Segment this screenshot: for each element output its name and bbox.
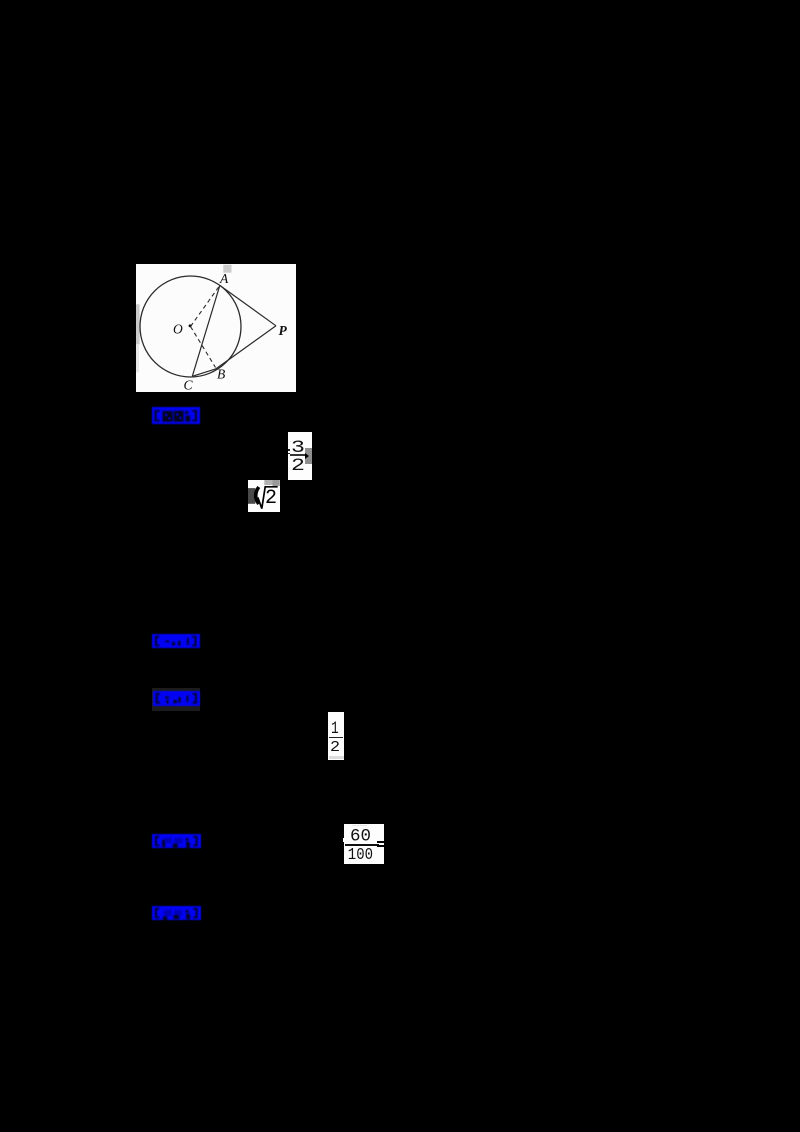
geometry figure image (white box with circle O, tangents PA, secant PC) — [136, 264, 296, 393]
gray strips top — [264, 480, 272, 485]
light gray strip bottom — [329, 756, 344, 759]
radical sign of sqrt(2) — [255, 487, 277, 509]
svg-text:C: C — [184, 377, 194, 392]
numerator 3 — [291, 439, 305, 456]
center dot O — [189, 324, 192, 327]
numerator 1 — [331, 720, 339, 738]
secant PC — [192, 325, 276, 376]
dark block left — [248, 488, 255, 504]
formula image 1/2 — [328, 712, 344, 761]
black cursor arrow — [305, 453, 309, 459]
fraction bar — [329, 737, 343, 739]
dashed radius OA — [191, 285, 220, 326]
gray selection block — [305, 448, 312, 464]
radicand 2 — [265, 488, 277, 508]
formula image sqrt(2) — [248, 480, 280, 512]
numerator 60 — [350, 828, 371, 846]
white speck left of 60/100 — [343, 838, 345, 842]
formula image 3/2 — [288, 432, 312, 481]
equals remnant at left edge — [288, 449, 290, 451]
svg-text:B: B — [217, 366, 225, 381]
svg-text:P: P — [279, 322, 288, 337]
opening parenthesis — [256, 487, 259, 504]
fraction bar — [290, 454, 305, 456]
blue highlight label 2 — [152, 634, 200, 648]
formula image 60/100 — [344, 824, 384, 864]
dashed radius OB — [191, 326, 216, 367]
denominator 100 — [348, 847, 373, 864]
dark gray halo around label 3 — [152, 688, 200, 711]
blue highlight label 3 — [153, 691, 200, 705]
equals sign — [377, 841, 384, 843]
denominator 2 — [330, 740, 340, 755]
denominator 2 — [291, 457, 305, 474]
gray artifact square near label A — [223, 264, 231, 272]
blue highlight label 4 — [152, 834, 201, 848]
gray artifact strip on left edge — [136, 304, 140, 344]
svg-text:O: O — [173, 321, 183, 336]
chord AC — [192, 285, 220, 376]
blue highlight label 1 — [152, 407, 200, 424]
fraction bar — [345, 844, 379, 846]
svg-text:A: A — [219, 271, 229, 286]
blue highlight label 5 — [152, 906, 201, 920]
tangent PA — [220, 285, 276, 325]
circle O — [140, 276, 241, 377]
light gray strip top — [352, 825, 367, 827]
